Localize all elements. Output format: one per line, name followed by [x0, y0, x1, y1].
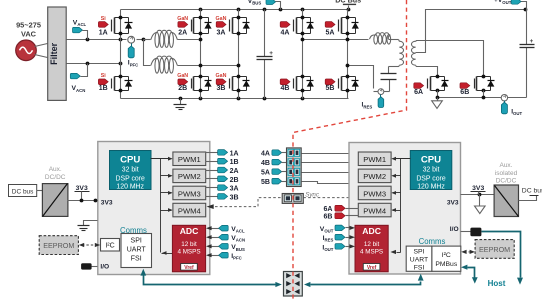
PWM4 block (left MCU): [173, 203, 206, 217]
svg-text:PMBus: PMBus: [435, 261, 458, 268]
svg-text:Host: Host: [488, 279, 506, 288]
wire leg 5 vertical: [347, 10, 349, 99]
svg-text:Sync: Sync: [305, 191, 320, 198]
EEPROM to I2C link (dashed, both arrows): [79, 243, 100, 247]
svg-text:PWM1: PWM1: [178, 155, 201, 164]
svg-text:PWM3: PWM3: [178, 189, 201, 198]
left MCU (C2000 controller) outline: [98, 142, 210, 275]
svg-text:I²C: I²C: [105, 243, 114, 250]
isolation boundary (red dashed): [293, 0, 407, 299]
svg-text:6B: 6B: [460, 89, 469, 96]
svg-text:1A: 1A: [230, 150, 239, 157]
wire leg 2 vertical: [200, 10, 202, 99]
ADC input V_ACL (left MCU): [206, 225, 245, 233]
svg-text:IOUT: IOUT: [322, 244, 333, 252]
svg-text:DC/DC: DC/DC: [45, 174, 66, 181]
svg-text:5B: 5B: [326, 85, 335, 92]
CPU to PWM internal bus (left MCU): [151, 157, 173, 255]
svg-text:3B: 3B: [217, 85, 226, 92]
PWM1 block (right MCU): [358, 152, 391, 166]
PWM output 2A: [206, 167, 239, 175]
svg-text:IPFC: IPFC: [231, 253, 242, 261]
ADC block (right MCU): [355, 225, 388, 271]
svg-text:I/O: I/O: [450, 226, 459, 233]
svg-text:4 MSPS: 4 MSPS: [177, 248, 200, 255]
wire AC source to filter: [35, 44, 48, 58]
svg-text:5A: 5A: [326, 30, 335, 37]
svg-text:VACL: VACL: [231, 226, 245, 234]
transistor 1B (Si): [98, 73, 132, 93]
gate labels 6A 6B (right MCU): [323, 205, 358, 220]
svg-text:DSP core: DSP core: [116, 175, 146, 182]
SPI UART FSI block (right MCU): [406, 246, 432, 271]
svg-text:2B: 2B: [230, 177, 239, 184]
EEPROM to PMBus link (dashed, both arrows): [461, 250, 475, 254]
+V_OUT label (clipped at top): [494, 0, 527, 10]
wire secondary return rail: [436, 91, 502, 100]
transistor 6B: [460, 75, 495, 97]
ADC input I_RES (right MCU): [323, 234, 355, 242]
svg-text:DSP core: DSP core: [416, 175, 446, 182]
svg-text:5B: 5B: [261, 179, 270, 186]
svg-text:+VOUT: +VOUT: [494, 0, 512, 5]
svg-text:VACL: VACL: [73, 20, 87, 28]
ground (left MCU): [78, 221, 98, 231]
right MCU (C2000 controller) outline: [349, 143, 461, 275]
svg-text:PWM2: PWM2: [363, 172, 386, 181]
I/O to host link: [482, 232, 524, 285]
svg-text:Vref: Vref: [367, 265, 377, 271]
svg-text:32 bit: 32 bit: [122, 166, 139, 173]
I2C block (left MCU): [101, 239, 120, 252]
transistor 4A: [280, 16, 314, 37]
PWM output 3A: [206, 185, 239, 193]
svg-text:EEPROM: EEPROM: [43, 241, 74, 250]
svg-text:2A: 2A: [230, 168, 239, 175]
ADC input V_BUS (left MCU): [206, 244, 245, 252]
Comms label (left MCU): [120, 226, 147, 235]
svg-text:Comms: Comms: [419, 237, 446, 246]
svg-text:Si: Si: [101, 16, 107, 22]
EEPROM (right): [475, 240, 514, 259]
transistor 1A (Si): [98, 16, 132, 37]
PWM output 2B: [206, 176, 239, 184]
svg-text:IPFC: IPFC: [128, 60, 139, 68]
svg-text:PWM4: PWM4: [363, 206, 386, 215]
I2C PMBus block (right MCU): [432, 246, 461, 271]
I/O connector (left): [81, 263, 97, 269]
svg-text:GaN: GaN: [177, 16, 188, 22]
svg-text:3A: 3A: [217, 30, 226, 37]
wire leg4 phase to resonant tank: [301, 38, 369, 42]
svg-text:3V3: 3V3: [101, 200, 113, 207]
PWM output 3B: [206, 194, 239, 202]
svg-text:VOUT: VOUT: [320, 226, 334, 234]
svg-text:2B: 2B: [178, 85, 187, 92]
svg-text:3B: 3B: [230, 194, 239, 201]
svg-text:12 bit: 12 bit: [364, 241, 380, 248]
CPU block (left MCU): [110, 151, 152, 191]
svg-text:1A: 1A: [99, 30, 108, 37]
wire DC bus to aux converter: [37, 190, 43, 192]
transistor 5B: [325, 75, 359, 93]
wire aux 3V3 to left MCU: [68, 199, 98, 203]
PWM3 block (left MCU): [173, 186, 206, 200]
svg-text:PWM2: PWM2: [178, 172, 201, 181]
current sensor I_RES: [362, 89, 390, 110]
svg-text:ADC: ADC: [362, 226, 381, 236]
svg-text:PWM4: PWM4: [178, 206, 201, 215]
wire secondary top to 6B drain: [416, 41, 484, 77]
ADC input I_PFC (left MCU): [206, 252, 242, 260]
ADC input V_OUT (right MCU): [320, 225, 355, 233]
wire right MCU 3V3 to aux: [461, 193, 495, 197]
wires isolator to right MCU PWM inputs: [302, 154, 359, 184]
inductor L1 (PFC phase A): [144, 30, 203, 47]
I/O connector (right): [461, 228, 482, 237]
svg-text:I²C: I²C: [442, 252, 451, 259]
PWM output 1B: [206, 158, 239, 166]
digital isolator (gate signals): [287, 148, 302, 187]
svg-text:VACN: VACN: [231, 235, 245, 243]
PWM2 block (left MCU): [173, 169, 206, 183]
svg-text:CPU: CPU: [421, 154, 441, 165]
PWM1 block (left MCU): [173, 152, 206, 166]
sync link left MCU (dashed): [207, 198, 282, 209]
svg-text:Aux.: Aux.: [49, 166, 62, 173]
svg-text:IOUT: IOUT: [511, 109, 522, 117]
wire leg 3 vertical: [238, 10, 240, 99]
DC bus input label (left): [9, 185, 37, 197]
svg-text:5A: 5A: [261, 170, 270, 177]
current sensor I_PFC: [128, 36, 139, 67]
svg-text:VAC: VAC: [21, 29, 37, 38]
svg-text:120 MHz: 120 MHz: [116, 184, 144, 191]
svg-text:Aux.: Aux.: [499, 162, 512, 169]
svg-text:VBUS: VBUS: [231, 244, 245, 252]
svg-text:PWM1: PWM1: [363, 155, 386, 164]
wire bottom rail (PFC/LLC return): [121, 97, 349, 101]
PMBus to host link: [461, 265, 478, 284]
svg-text:Vref: Vref: [184, 265, 194, 271]
I/O pin label (right MCU): [450, 226, 459, 233]
svg-text:Si: Si: [101, 73, 107, 79]
svg-text:isolated: isolated: [495, 170, 518, 177]
transistor 3B (GaN): [216, 73, 250, 93]
svg-text:2A: 2A: [178, 30, 187, 37]
svg-text:6A: 6A: [414, 89, 423, 96]
EEPROM (left): [39, 236, 78, 255]
svg-text:+: +: [530, 38, 534, 45]
Aux DC/DC converter (left): [42, 166, 68, 216]
svg-text:6A: 6A: [323, 206, 332, 213]
I/O pin label (left MCU): [100, 264, 109, 271]
svg-text:4B: 4B: [261, 160, 270, 167]
svg-text:EEPROM: EEPROM: [479, 245, 510, 254]
svg-text:6B: 6B: [323, 214, 332, 221]
svg-text:120 MHz: 120 MHz: [417, 184, 445, 191]
wire secondary bottom to 6A drain: [416, 66, 438, 77]
svg-text:DC bus: DC bus: [522, 188, 542, 195]
wire to inductor L2: [144, 40, 151, 66]
svg-text:+: +: [269, 50, 273, 57]
svg-text:4A: 4A: [261, 151, 270, 158]
digital isolator (comms/FSI): [284, 272, 303, 297]
wire leg 1 vertical: [120, 10, 122, 99]
capacitor output: [520, 10, 535, 48]
svg-text:4B: 4B: [281, 85, 290, 92]
3V3 pin label (right MCU): [447, 199, 459, 206]
transistor 2B (GaN): [177, 73, 211, 93]
Vref block (right MCU): [363, 264, 380, 271]
DC Bus caption (clipped at top): [335, 0, 361, 9]
3V3 net label (right): [471, 185, 486, 194]
svg-text:UART: UART: [127, 247, 147, 254]
svg-text:FSI: FSI: [131, 256, 142, 263]
wire top DC bus rail: [121, 8, 351, 12]
ground (primary): [174, 99, 187, 110]
svg-text:4A: 4A: [281, 30, 290, 37]
transistor 6A: [414, 75, 449, 97]
PWM2 block (right MCU): [358, 169, 391, 183]
SPI UART FSI block (left MCU): [121, 234, 152, 268]
inductor L2 (PFC phase B): [151, 56, 241, 73]
Comms label (right MCU): [419, 237, 446, 246]
ADC input I_OUT (right MCU): [322, 244, 355, 252]
V_ACN sense tap: [70, 64, 87, 93]
svg-text:ADC: ADC: [180, 226, 199, 236]
transformer T1 primary winding: [389, 40, 404, 67]
wire AC line L (filter to leg1 and PFC sensor): [67, 38, 146, 42]
ground (secondary, open triangle): [432, 98, 443, 109]
capacitor DC bus: [257, 10, 274, 99]
current sensor I_OUT: [501, 48, 526, 117]
svg-text:I/O: I/O: [100, 264, 109, 271]
CPU to PWM internal bus (right MCU): [390, 157, 410, 254]
3V3 pin label (left MCU): [101, 200, 113, 207]
wire leg5 phase to resonant capacitor: [346, 64, 374, 89]
inductor Lr (resonant): [370, 33, 399, 45]
svg-text:CPU: CPU: [120, 154, 140, 165]
wire secondary center tap to +OUT rail: [416, 8, 528, 53]
svg-text:12 bit: 12 bit: [181, 241, 197, 248]
transistor 4B: [280, 75, 314, 93]
wire AC neutral N (filter to leg1): [67, 62, 123, 66]
svg-text:3A: 3A: [230, 186, 239, 193]
svg-text:VACN: VACN: [72, 85, 86, 93]
svg-text:UART: UART: [410, 256, 428, 263]
svg-text:32 bit: 32 bit: [423, 166, 440, 173]
Sync label: [305, 191, 320, 198]
wire leg 4 vertical: [302, 10, 304, 99]
CPU block (right MCU): [410, 151, 452, 191]
svg-text:Comms: Comms: [120, 226, 147, 235]
Host label: [488, 279, 506, 288]
capacitor Cr (resonant): [381, 67, 399, 92]
ADC input V_ACN (left MCU): [206, 234, 245, 242]
Vref block (left MCU): [181, 264, 198, 271]
transistor 3A (GaN): [216, 16, 250, 37]
svg-text:GaN: GaN: [216, 73, 227, 79]
svg-text:1B: 1B: [230, 159, 239, 166]
EMI filter block: [48, 7, 66, 100]
svg-text:GaN: GaN: [216, 16, 227, 22]
transistor 5A: [325, 16, 359, 37]
svg-text:DC bus: DC bus: [12, 188, 34, 195]
svg-text:95~275: 95~275: [16, 20, 41, 29]
Aux isolated DC/DC converter (right): [494, 162, 518, 216]
svg-text:1B: 1B: [99, 85, 108, 92]
PWM3 block (right MCU): [358, 186, 391, 200]
svg-text:IRES: IRES: [323, 235, 334, 243]
V_ACL sense tap: [72, 20, 87, 40]
AC source 95~275 VAC: [16, 20, 41, 60]
transformer T1 secondary winding: [411, 41, 415, 65]
svg-text:SPI: SPI: [414, 248, 425, 255]
svg-text:SPI: SPI: [131, 238, 142, 245]
V_BUS label (clipped at top): [248, 0, 281, 10]
sync link right MCU (dashed): [303, 197, 349, 199]
sync isolator: [282, 194, 303, 204]
svg-text:DC/DC: DC/DC: [496, 178, 517, 185]
PWM4 block (right MCU): [358, 203, 391, 217]
svg-text:IRES: IRES: [362, 102, 373, 110]
3V3 net label (left): [75, 185, 90, 200]
ground (right, open triangle): [475, 195, 486, 214]
FSI bus isolator to right MCU: [304, 274, 424, 287]
svg-text:GaN: GaN: [177, 73, 188, 79]
svg-text:Filter: Filter: [49, 42, 59, 65]
svg-text:FSI: FSI: [414, 264, 425, 271]
svg-text:VBUS: VBUS: [248, 0, 262, 6]
svg-text:3V3: 3V3: [447, 199, 459, 206]
transistor 2A (GaN): [177, 16, 211, 37]
FSI bus left MCU to isolator: [140, 269, 281, 287]
svg-text:PWM3: PWM3: [363, 189, 386, 198]
gate-signal labels 4A 4B 5A 5B with arrows: [261, 150, 287, 186]
svg-text:4 MSPS: 4 MSPS: [360, 248, 383, 255]
PWM output 1A: [206, 150, 239, 158]
DC bus output label (right, clipped): [519, 188, 542, 201]
ADC block (left MCU): [172, 225, 205, 271]
